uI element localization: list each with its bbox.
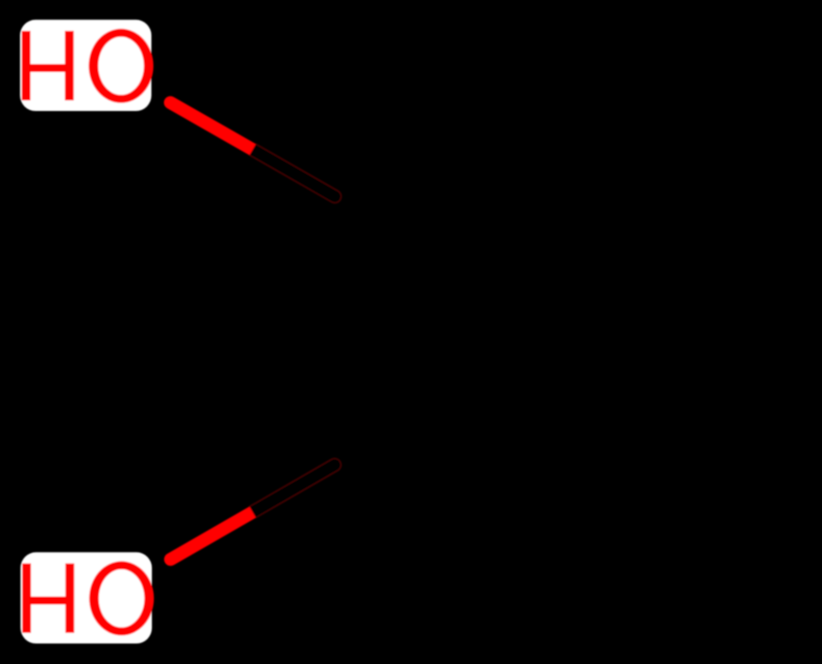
atom label O2: white background box: [21, 552, 152, 643]
bond C2-O2 (bottom hydroxyl bond), black C-half with dark red rim: [249, 458, 341, 517]
atom label O2: red O glyph (ellipse ring): [89, 561, 154, 635]
atom label O1: red O glyph (ellipse ring): [89, 29, 154, 103]
atom label O2: red text "HO" (H glyph drawn as rects): [22, 563, 74, 632]
atom label O1: white background box: [20, 20, 151, 111]
bond C1-O1 (top hydroxyl bond), black C-half with dark red rim: [249, 144, 341, 203]
bond C2-O2 (bottom hydroxyl bond), red O-half: [171, 512, 253, 559]
bond C1-O1 (top hydroxyl bond), red O-half: [170, 103, 252, 150]
atom label O1: red text "HO" (H glyph drawn as rects): [22, 31, 74, 100]
